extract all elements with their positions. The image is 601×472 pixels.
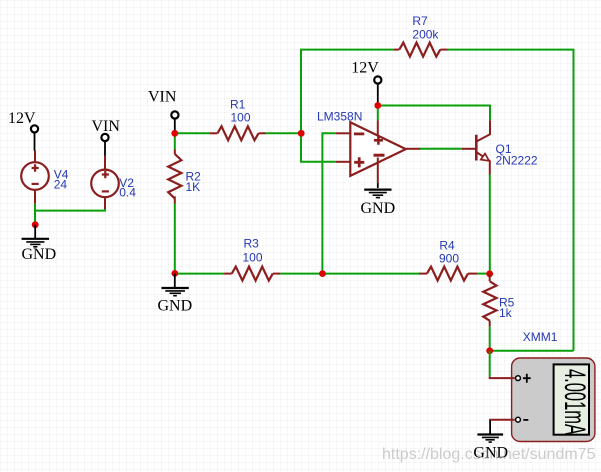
wire V2 to gnd rail (35, 209, 105, 211)
junction R4/R5 (486, 270, 493, 277)
node 12V (op-amp supply) terminal (351, 60, 381, 106)
resistor R2 1K (168, 149, 201, 203)
pin V+ (377, 120, 379, 136)
svg-text:GND: GND (473, 445, 508, 462)
wire output to Q1 base (420, 148, 462, 150)
svg-text:R4: R4 (439, 239, 455, 253)
junction VIN node (171, 130, 178, 137)
ground (bottom right) (477, 420, 503, 442)
meter + lead (490, 377, 515, 379)
svg-text:R3: R3 (244, 237, 260, 251)
marker minus input (354, 132, 364, 135)
wire op-amp IN- branch (322, 133, 335, 273)
svg-text:R7: R7 (412, 14, 428, 28)
svg-text:GND: GND (158, 298, 193, 315)
marker minus supply (374, 154, 385, 157)
svg-text:GND: GND (22, 246, 57, 263)
svg-text:VIN: VIN (92, 118, 121, 135)
wire Q1 emitter down (489, 175, 491, 274)
source V4 24 (21, 151, 69, 204)
svg-text:100: 100 (243, 251, 263, 265)
svg-text:200k: 200k (412, 27, 439, 41)
wire VIN to R1 (175, 132, 210, 134)
wire junction down to meter (489, 351, 491, 377)
wire R7 right segment to right rail (448, 50, 574, 351)
svg-text:2N2222: 2N2222 (496, 154, 538, 168)
source V2 0.4 (91, 156, 136, 210)
node 12V (left) terminal (8, 110, 38, 151)
node VIN (middle) terminal (148, 89, 178, 134)
svg-text:4.001mA: 4.001mA (558, 369, 591, 435)
svg-text:VIN: VIN (148, 89, 177, 106)
meter - lead (490, 419, 515, 421)
wire R7 top rail (301, 50, 394, 134)
wire V4/V2 bottom (34, 204, 36, 225)
resistor R7 200k (394, 14, 448, 57)
svg-text:100: 100 (231, 111, 251, 125)
wire collector rail (378, 106, 490, 121)
ground (middle) (162, 273, 189, 295)
ground (left) (22, 225, 49, 247)
wire R3 row left (175, 273, 224, 275)
svg-text:1K: 1K (186, 180, 201, 194)
wire R3 to R4 (280, 273, 419, 275)
svg-text:12V: 12V (351, 60, 379, 77)
wire R4 to junction (477, 273, 490, 275)
junction 12V/op-amp (374, 102, 381, 109)
svg-text:900: 900 (439, 252, 459, 266)
resistor R3 100 (224, 237, 280, 281)
svg-text:LM358N: LM358N (317, 110, 362, 124)
svg-text:1k: 1k (499, 306, 513, 320)
resistor R4 900 (419, 239, 477, 281)
marker plus input (354, 157, 364, 167)
wire R5 to meter junction (489, 327, 491, 351)
junction middle gnd (171, 270, 178, 277)
transistor Q1 2N2222 (462, 120, 538, 174)
wire R1 to junction (266, 132, 301, 134)
resistor R5 1k (483, 274, 514, 327)
op-amp U1 LM358N (317, 110, 420, 183)
junction R3/opamp branch (319, 270, 326, 277)
junction R1/R7 (298, 130, 305, 137)
wire bottom rail to right rail (490, 350, 574, 352)
junction left gnd (32, 221, 39, 228)
ground (op-amp) (364, 183, 391, 198)
multimeter XMM1 (490, 330, 595, 442)
pin V- (377, 158, 379, 183)
wire supply to op-amp (377, 106, 379, 121)
pin OUT lead (406, 148, 420, 150)
resistor R1 100 (210, 98, 266, 141)
wire junction to op-amp IN+ (301, 133, 336, 162)
svg-text:24: 24 (54, 178, 68, 192)
node VIN (left) terminal (92, 118, 121, 156)
svg-text:0.4: 0.4 (119, 186, 136, 200)
svg-text:GND: GND (361, 200, 396, 217)
marker plus supply (374, 136, 383, 145)
wire VIN to R2 (174, 133, 176, 149)
svg-text:XMM1: XMM1 (523, 330, 558, 344)
pin IN- lead (336, 132, 351, 134)
junction meter (486, 347, 493, 354)
pin IN+ lead (336, 161, 351, 163)
svg-text:12V: 12V (8, 110, 36, 127)
wire R2 to gnd junction (174, 204, 176, 274)
svg-text:R1: R1 (230, 98, 246, 112)
